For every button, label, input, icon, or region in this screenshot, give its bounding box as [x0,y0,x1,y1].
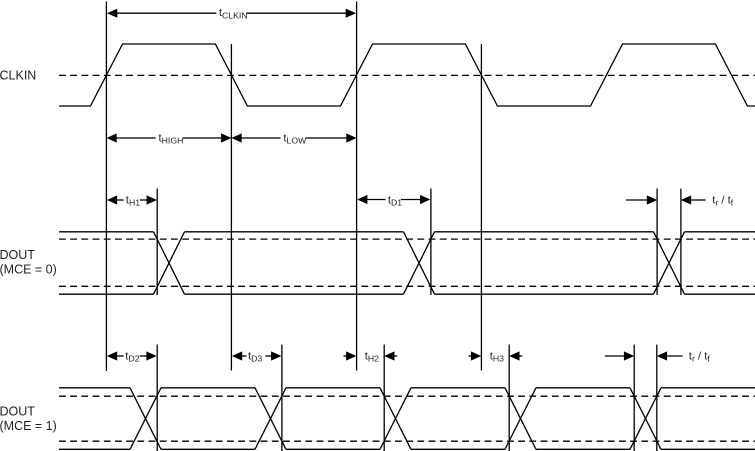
svg-text:(MCE = 0): (MCE = 0) [0,263,57,277]
svg-text:DOUT: DOUT [0,404,35,418]
svg-text:(MCE = 1): (MCE = 1) [0,419,57,433]
svg-text:DOUT: DOUT [0,248,35,262]
svg-text:CLKIN: CLKIN [0,69,36,83]
